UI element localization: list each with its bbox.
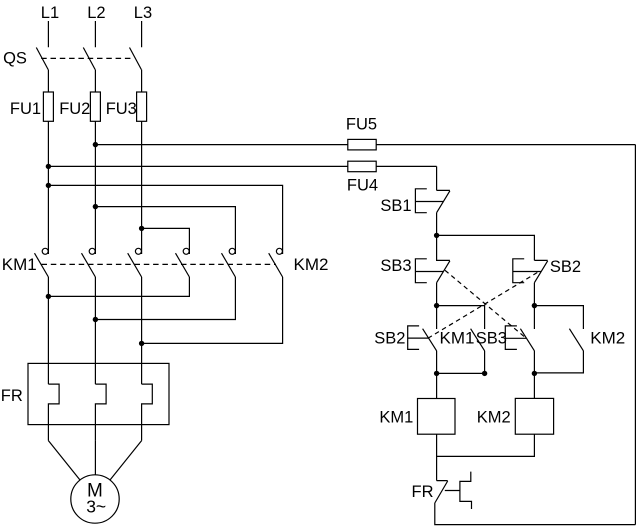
svg-text:L1: L1 xyxy=(41,4,59,22)
svg-text:L3: L3 xyxy=(134,4,152,22)
svg-text:KM2: KM2 xyxy=(294,255,329,274)
svg-text:SB2: SB2 xyxy=(550,258,581,276)
svg-text:KM1: KM1 xyxy=(440,329,475,348)
svg-text:FU2: FU2 xyxy=(59,100,90,118)
svg-text:FR: FR xyxy=(1,387,23,405)
svg-text:SB2: SB2 xyxy=(374,330,405,348)
svg-text:FR: FR xyxy=(412,483,434,501)
svg-text:FU4: FU4 xyxy=(347,177,378,195)
svg-text:SB1: SB1 xyxy=(380,197,411,215)
svg-text:3~: 3~ xyxy=(86,497,106,517)
svg-text:L2: L2 xyxy=(87,4,105,22)
svg-text:KM1: KM1 xyxy=(2,255,37,274)
svg-text:QS: QS xyxy=(3,50,27,68)
svg-text:KM2: KM2 xyxy=(477,408,511,426)
svg-text:FU3: FU3 xyxy=(106,100,137,118)
svg-text:FU1: FU1 xyxy=(10,100,41,118)
svg-text:SB3: SB3 xyxy=(476,330,507,348)
svg-text:FU5: FU5 xyxy=(346,116,377,134)
svg-text:KM2: KM2 xyxy=(590,329,625,348)
svg-text:KM1: KM1 xyxy=(379,408,413,426)
svg-text:SB3: SB3 xyxy=(380,257,411,275)
